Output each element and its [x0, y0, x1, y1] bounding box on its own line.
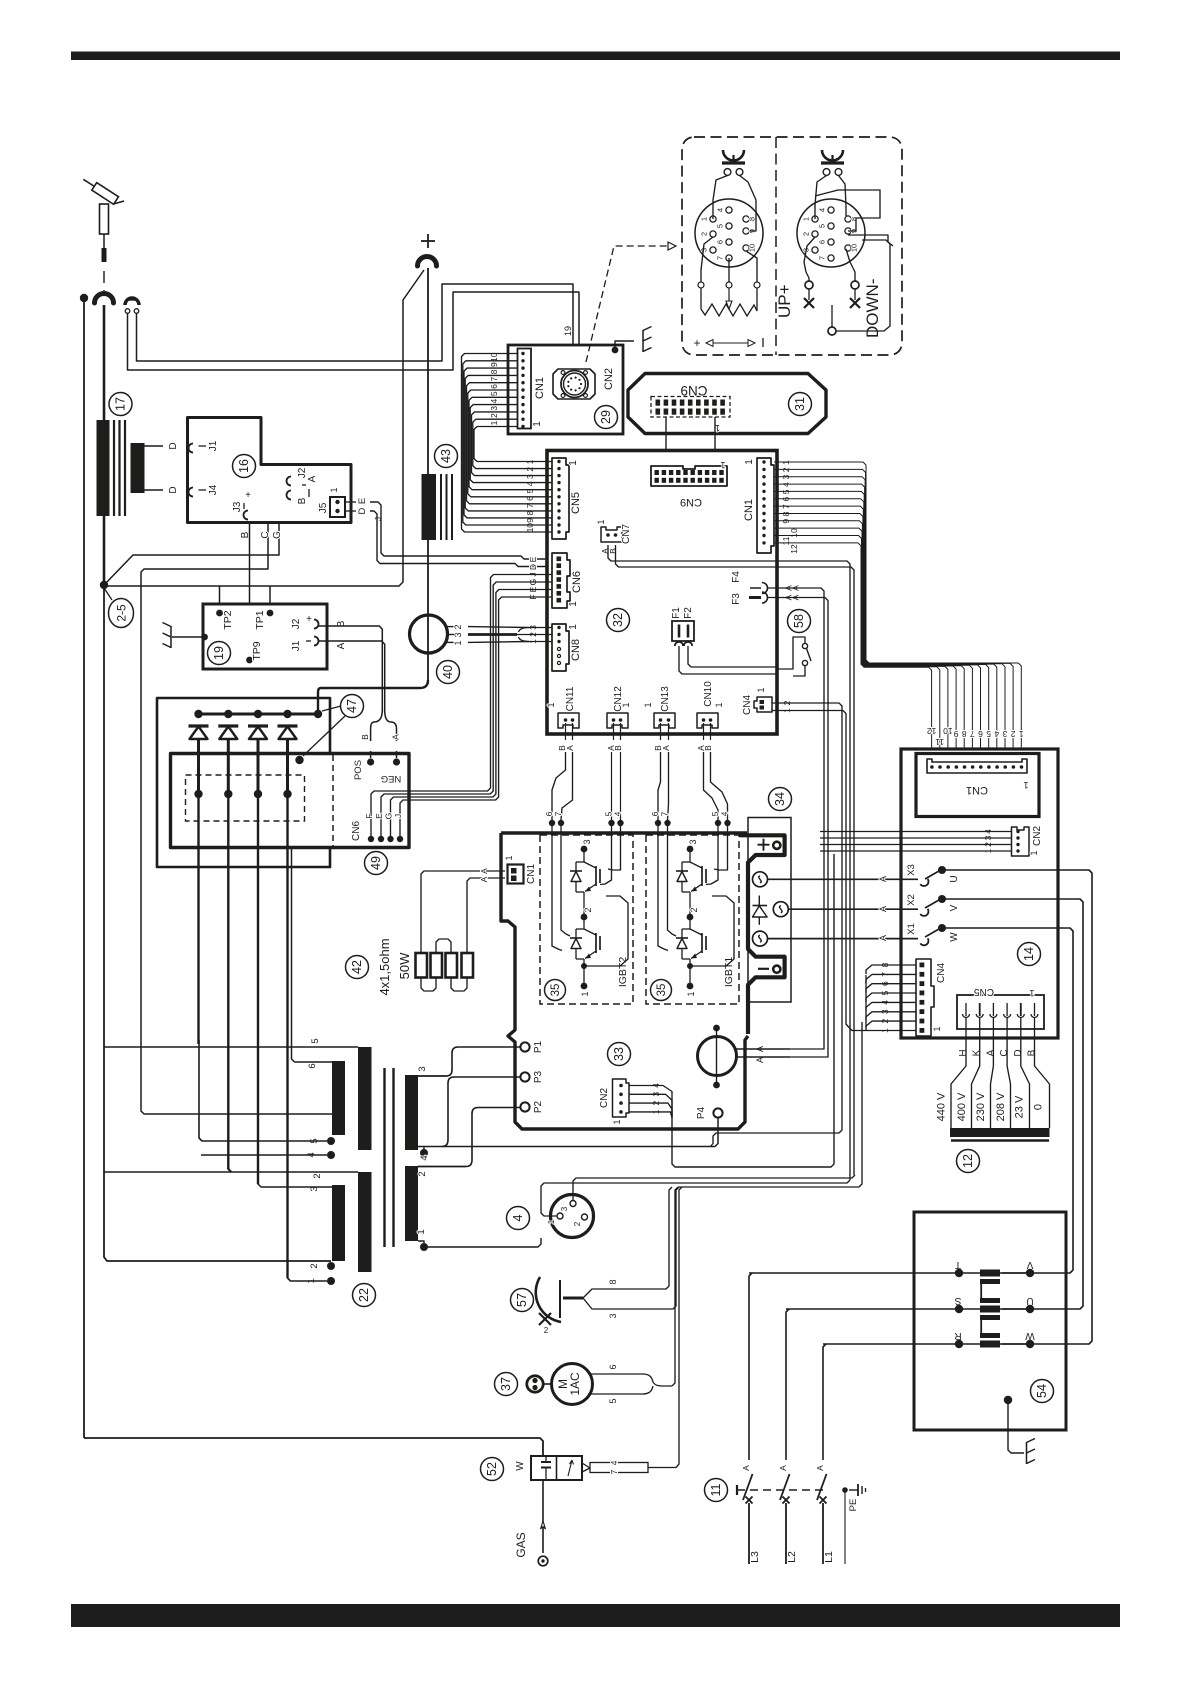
pad P2	[520, 1102, 529, 1111]
svg-text:A: A	[565, 745, 575, 751]
label tap2 dot	[327, 1262, 335, 1270]
diode D1	[189, 710, 209, 1044]
svg-text:A: A	[878, 876, 888, 882]
svg-text:TP2: TP2	[222, 610, 234, 629]
label tap5 dot	[327, 1137, 335, 1145]
svg-text:V: V	[1026, 1259, 1033, 1270]
wire CN11 pins down	[565, 723, 567, 740]
sensor wires to CN8	[468, 626, 529, 629]
svg-text:2: 2	[453, 624, 463, 629]
svg-text:CN7: CN7	[621, 524, 632, 544]
diode D3	[248, 710, 268, 1184]
wire T17 secondary D upper	[145, 445, 164, 447]
svg-text:P4: P4	[696, 1106, 707, 1119]
svg-text:G: G	[384, 813, 394, 820]
svg-text:42: 42	[350, 960, 364, 974]
wire tap1dot	[288, 1268, 328, 1281]
voltage bus bar	[950, 1128, 1050, 1137]
wire CN7 A	[608, 545, 850, 1180]
connector CN2 board33	[599, 1079, 629, 1125]
connector J4	[168, 484, 219, 496]
ref circle 22	[353, 1284, 376, 1307]
svg-text:B: B	[703, 745, 713, 751]
wire CN4 2	[711, 703, 843, 1147]
svg-text:1: 1	[621, 702, 631, 707]
transformer T17 secondary bar	[131, 443, 145, 493]
pad P4	[713, 1108, 722, 1117]
svg-text:G: G	[272, 531, 283, 539]
svg-text:49: 49	[369, 856, 383, 870]
svg-text:1: 1	[744, 459, 755, 465]
svg-text:T: T	[955, 1259, 961, 1270]
sensor output stubs	[447, 626, 454, 628]
svg-text:1: 1	[612, 1119, 622, 1124]
connector CN2 board14	[1012, 827, 1030, 856]
svg-text:6: 6	[978, 729, 983, 739]
svg-text:35: 35	[550, 984, 562, 997]
svg-text:5: 5	[986, 729, 991, 739]
svg-text:3: 3	[453, 632, 463, 637]
svg-text:H: H	[958, 1049, 969, 1056]
connector CN12 board32	[607, 686, 631, 728]
board 32 outline	[547, 451, 777, 735]
remote divider dashed	[775, 137, 777, 355]
test point TP9	[246, 657, 253, 664]
remote pot plus minus arrows	[693, 336, 763, 350]
svg-text:57: 57	[515, 1293, 529, 1307]
ref circle 47 with leaders	[314, 710, 322, 718]
svg-text:CN2: CN2	[599, 1088, 610, 1108]
svg-text:A: A	[878, 935, 888, 941]
svg-text:7: 7	[970, 729, 975, 739]
remote torch socket 1 symbol	[722, 150, 745, 175]
wire valve gas down	[542, 1480, 544, 1553]
svg-text:10: 10	[525, 523, 535, 533]
svg-text:12: 12	[789, 544, 799, 554]
transformer 22 primary bar upper	[405, 1075, 418, 1150]
svg-text:CN6: CN6	[351, 821, 362, 841]
svg-text:C: C	[999, 1049, 1010, 1056]
svg-text:CN10: CN10	[703, 681, 714, 707]
svg-text:CN9: CN9	[680, 383, 707, 398]
svg-text:7: 7	[489, 377, 499, 382]
module CN6 connector	[351, 813, 403, 843]
ground symbol box54	[1027, 1439, 1036, 1465]
thermostat on board 33	[698, 1025, 737, 1089]
junction dot board29 ground	[612, 347, 619, 354]
remote connector 2 wires	[815, 176, 827, 220]
wires FEGJ from module to CN6	[371, 575, 552, 837]
svg-text:DOWN-: DOWN-	[863, 279, 882, 338]
PE ground symbol	[849, 1484, 866, 1496]
svg-text:2: 2	[417, 1171, 428, 1176]
svg-text:POS: POS	[353, 760, 364, 780]
svg-text:CN1: CN1	[526, 864, 537, 884]
board 33 outline	[501, 833, 748, 1129]
block 31 outline	[628, 374, 826, 434]
svg-text:B: B	[360, 734, 370, 740]
svg-text:8: 8	[748, 217, 757, 221]
svg-text:9: 9	[953, 729, 958, 739]
svg-text:1: 1	[580, 991, 590, 996]
svg-text:PE: PE	[848, 1499, 859, 1512]
wire P2 to transformer tap2	[418, 1108, 521, 1167]
svg-text:2: 2	[802, 232, 811, 236]
labels voltages	[936, 1092, 1045, 1121]
wire secondary top tap5 long	[104, 1046, 358, 1048]
ref circle 42	[346, 956, 369, 979]
svg-text:54: 54	[1035, 1384, 1049, 1398]
svg-text:IGBT2: IGBT2	[617, 957, 629, 988]
wire conn4 pin3	[573, 1175, 855, 1201]
svg-text:A: A	[815, 1465, 825, 1471]
remote switch UP	[804, 281, 814, 308]
wire X3 out	[942, 870, 1092, 1344]
svg-text:32: 32	[611, 613, 625, 627]
svg-text:CN1: CN1	[534, 377, 546, 399]
svg-text:34: 34	[773, 792, 787, 806]
current sensor 40 ring	[410, 615, 448, 653]
IGBT lower transistor IGBT2	[570, 907, 600, 996]
connector J1	[168, 440, 219, 452]
svg-text:A: A	[878, 906, 888, 912]
svg-text:J1: J1	[291, 640, 302, 651]
svg-text:B: B	[1027, 1049, 1038, 1056]
svg-text:J: J	[393, 814, 403, 818]
svg-text:B: B	[297, 497, 308, 504]
connector CN5 board32	[552, 458, 569, 539]
labels CN1-32 pins right	[781, 460, 799, 554]
remote switch DOWN	[850, 281, 860, 308]
wire valve to riser	[648, 1187, 682, 1468]
wire board29 to ground	[615, 341, 634, 350]
wire TP2 branch	[219, 586, 221, 610]
svg-text:208 V: 208 V	[995, 1092, 1007, 1121]
wire J2 B down stem	[318, 626, 382, 712]
svg-text:V: V	[949, 904, 960, 911]
wire motor riser	[672, 1187, 678, 1386]
svg-text:C: C	[260, 531, 271, 538]
svg-text:2: 2	[700, 232, 709, 236]
connector J1 on board 19	[291, 637, 319, 652]
svg-text:37: 37	[499, 1377, 513, 1391]
svg-text:U: U	[949, 875, 960, 882]
wire main vertical below node	[104, 589, 331, 1261]
labels CN1 board29 pins	[489, 352, 499, 425]
wire collector runner IGBT2	[584, 896, 628, 966]
svg-text:2: 2	[489, 413, 499, 418]
PE dot and wire	[842, 1487, 848, 1493]
IGBT module dashed box IGBT2	[540, 835, 633, 1004]
connector CN9 block31 body	[651, 397, 730, 418]
wire L3 column upper	[749, 1273, 752, 1460]
bottom border bar	[71, 1604, 1120, 1627]
svg-text:43: 43	[439, 449, 453, 463]
svg-text:1: 1	[547, 1219, 556, 1224]
ref circle 57	[511, 1289, 534, 1312]
pad P1	[520, 1042, 529, 1051]
svg-text:440 V: 440 V	[936, 1092, 948, 1121]
test point TP1	[267, 610, 274, 617]
svg-text:1: 1	[802, 217, 811, 221]
ref circle 43	[435, 445, 458, 468]
heatsink 34 thick plate	[740, 835, 785, 1034]
ref circle 40	[437, 661, 460, 684]
wire work lead left vertical	[83, 302, 85, 1438]
svg-text:400 V: 400 V	[956, 1092, 968, 1121]
svg-text:TP9: TP9	[251, 641, 263, 660]
svg-text:3: 3	[608, 1313, 618, 1318]
svg-text:UP+: UP+	[775, 284, 794, 318]
gas flow arrow	[541, 1521, 546, 1529]
wire bundle CN1-32 to CN1-14	[774, 462, 1021, 749]
transformer 22 primary bar lower	[405, 1166, 418, 1241]
svg-text:3: 3	[489, 406, 499, 411]
wire L3 column lower	[748, 1503, 750, 1564]
svg-text:1: 1	[643, 702, 653, 707]
svg-text:J5: J5	[318, 502, 329, 513]
connector J2 on board 19	[291, 614, 319, 629]
box 54 outline	[914, 1212, 1066, 1430]
svg-text:4: 4	[994, 729, 999, 739]
transformer 22 secondary inner bar lower	[332, 1185, 345, 1261]
svg-text:CN8: CN8	[570, 639, 582, 661]
wire J5 D to CN6	[370, 511, 548, 567]
box54 ground dot	[1004, 1396, 1012, 1404]
wire P1 to transformer tap3	[418, 1047, 521, 1076]
svg-text:40: 40	[441, 665, 455, 679]
svg-text:6: 6	[716, 240, 725, 244]
svg-text:7: 7	[609, 1469, 619, 1474]
top border bar	[71, 52, 1120, 61]
remote down common circle	[828, 327, 836, 335]
torch trigger 57 symbol	[536, 1277, 583, 1335]
svg-text:5: 5	[489, 391, 499, 396]
svg-text:GAS: GAS	[514, 1532, 528, 1557]
ref circle 54	[1031, 1380, 1054, 1403]
module dashed divider	[332, 755, 334, 846]
svg-text:F2: F2	[683, 607, 694, 619]
board 29 outline	[508, 345, 623, 434]
wire trigger riser to bundle	[676, 1022, 862, 1190]
labels CN1-14 top	[927, 726, 1024, 747]
svg-text:2: 2	[544, 1326, 549, 1335]
wire B box16 to TP9	[249, 523, 251, 657]
wire secondary lower tap2 long	[104, 1171, 358, 1173]
wire A to R4	[467, 878, 505, 953]
wire J5 E to CN6	[370, 502, 548, 559]
connector CN4 board14	[916, 959, 934, 1036]
switch 58	[777, 637, 811, 676]
transformer 22 secondary inner bar upper	[332, 1061, 345, 1135]
svg-text:D: D	[528, 564, 538, 570]
electrode dashed wire	[103, 271, 105, 291]
svg-text:1: 1	[568, 601, 579, 607]
svg-text:E: E	[374, 813, 384, 819]
wire CN12 pins down	[613, 723, 615, 740]
wire collector runner IGBT1	[690, 896, 734, 966]
wire gas line bottom horizontal	[84, 1438, 543, 1456]
ground symbol board29	[643, 327, 652, 353]
svg-text:+: +	[245, 490, 251, 501]
svg-text:7: 7	[818, 256, 827, 260]
svg-text:A: A	[391, 734, 401, 740]
wire L2 column upper	[786, 1309, 789, 1460]
wire sensor through vertical	[427, 540, 429, 684]
svg-text:TP1: TP1	[254, 610, 266, 629]
svg-text:12: 12	[961, 1154, 975, 1168]
connector CN4 board32	[742, 687, 772, 715]
round connector CN2 board29	[553, 369, 595, 399]
wire pendant B	[128, 292, 580, 370]
AC terminal circle U	[753, 872, 768, 887]
svg-text:1: 1	[714, 702, 724, 707]
svg-text:1: 1	[329, 487, 339, 492]
svg-text:2-5: 2-5	[115, 604, 129, 622]
phase row S-U	[786, 1295, 1034, 1313]
svg-text:0: 0	[1033, 1104, 1045, 1110]
svg-text:W: W	[949, 932, 960, 942]
labels CN6 left	[528, 556, 538, 599]
svg-text:1: 1	[756, 687, 766, 692]
svg-text:4: 4	[613, 811, 623, 816]
svg-text:J2: J2	[291, 618, 302, 629]
svg-text:W: W	[515, 1461, 526, 1471]
connector CN8 board32	[552, 624, 569, 671]
svg-text:1: 1	[532, 421, 543, 427]
svg-text:1: 1	[416, 1229, 427, 1234]
connector CN11 board32	[546, 686, 579, 728]
remote potentiometer zigzag	[701, 288, 757, 316]
svg-text:1: 1	[720, 460, 725, 470]
svg-text:47: 47	[345, 699, 359, 713]
svg-text:17: 17	[114, 397, 128, 411]
svg-text:1: 1	[596, 519, 606, 524]
connector CN1 driver board	[504, 855, 537, 884]
connector J2 pair	[287, 467, 319, 504]
work lead junction dot	[80, 294, 88, 302]
wire thermostat A upper	[737, 1048, 791, 1050]
svg-text:11: 11	[781, 536, 791, 545]
phase row R-W	[823, 1330, 1035, 1348]
svg-text:F1: F1	[671, 607, 682, 619]
wire AC V to X2	[788, 908, 918, 910]
IGBT module dashed box IGBT1	[646, 835, 739, 1004]
svg-text:5: 5	[710, 811, 720, 816]
svg-text:X2: X2	[906, 894, 917, 906]
connector CN1 board29 body	[518, 349, 532, 429]
transformer T17 core lines	[113, 420, 115, 516]
svg-text:1: 1	[546, 702, 556, 707]
wire tap4dot	[201, 1154, 327, 1156]
heatsink 34 outline thin	[748, 818, 791, 1003]
svg-text:50W: 50W	[397, 952, 412, 979]
wire motor merge	[628, 1374, 672, 1394]
svg-text:3: 3	[688, 839, 698, 844]
svg-text:19: 19	[212, 646, 226, 660]
valve solenoid coil	[582, 1460, 648, 1474]
ref circle 32	[607, 609, 630, 632]
svg-text:W: W	[1025, 1330, 1035, 1341]
winding bracket 1	[980, 1279, 1000, 1303]
svg-text:7: 7	[553, 811, 563, 816]
svg-text:1: 1	[932, 1026, 942, 1031]
wire Y split to POS NEG	[371, 710, 397, 758]
ref circle 35 IGBT1	[651, 980, 672, 1001]
svg-text:CN1: CN1	[743, 499, 755, 521]
tap4 junction dot stub	[420, 1149, 428, 1157]
svg-text:E: E	[357, 498, 368, 504]
wire L1 column lower	[822, 1503, 824, 1564]
svg-text:11: 11	[935, 737, 944, 747]
svg-text:3: 3	[1002, 729, 1007, 739]
svg-text:1: 1	[700, 217, 709, 221]
svg-text:L3: L3	[749, 1551, 761, 1563]
minus terminal 34	[773, 966, 780, 973]
svg-text:1: 1	[1019, 729, 1024, 739]
fuse F1 F2	[671, 607, 694, 646]
svg-text:CN2: CN2	[1032, 826, 1043, 846]
svg-text:12: 12	[927, 726, 937, 736]
resistor R1	[416, 953, 428, 978]
wire F2 out	[688, 646, 777, 667]
svg-text:7: 7	[660, 811, 670, 816]
ref circle 34	[769, 788, 792, 811]
remote connector 1 circle	[695, 199, 763, 267]
svg-text:52: 52	[485, 1462, 499, 1476]
svg-text:CN9: CN9	[680, 496, 702, 508]
svg-text:D: D	[357, 507, 368, 514]
svg-text:A: A	[985, 1049, 996, 1056]
IGBT lower transistor IGBT1	[676, 907, 706, 996]
svg-text:CN5: CN5	[570, 492, 582, 514]
pad P3	[520, 1072, 529, 1081]
svg-text:4: 4	[511, 1214, 525, 1221]
svg-text:U: U	[1026, 1295, 1033, 1306]
wire CN7 B	[616, 545, 855, 1175]
wire box54 ground	[1008, 1400, 1024, 1453]
wire CN4 1	[772, 711, 849, 1028]
wire trigger 8	[583, 1187, 672, 1298]
transformer 22 core lines	[383, 1068, 385, 1247]
wires CN2-33 bundle	[629, 1086, 672, 1118]
svg-text:X1: X1	[906, 923, 917, 935]
svg-text:1: 1	[686, 991, 696, 996]
svg-text:D: D	[168, 442, 179, 449]
svg-text:+: +	[693, 336, 700, 350]
wire pendant A	[137, 284, 574, 366]
plus terminal 34	[773, 842, 780, 849]
wire P4 down to tap4 line	[418, 1118, 718, 1147]
svg-text:1: 1	[453, 640, 463, 645]
svg-text:F: F	[364, 813, 374, 818]
remote down wire loop	[836, 240, 890, 331]
module NEG terminal	[393, 758, 400, 765]
wire IGBT 5 4 drops	[600, 833, 612, 885]
ref circle 33	[608, 1043, 631, 1066]
switch X3	[906, 864, 960, 888]
ref circle 31	[789, 393, 812, 416]
svg-text:1: 1	[504, 855, 514, 860]
svg-text:31: 31	[793, 397, 807, 411]
svg-text:A: A	[336, 642, 347, 649]
svg-text:230 V: 230 V	[975, 1092, 987, 1121]
svg-text:22: 22	[357, 1288, 371, 1302]
wire J1 A down stem	[318, 641, 385, 712]
svg-text:NEG: NEG	[381, 773, 402, 784]
svg-text:4: 4	[489, 398, 499, 403]
phase row T-V	[749, 1259, 1034, 1277]
